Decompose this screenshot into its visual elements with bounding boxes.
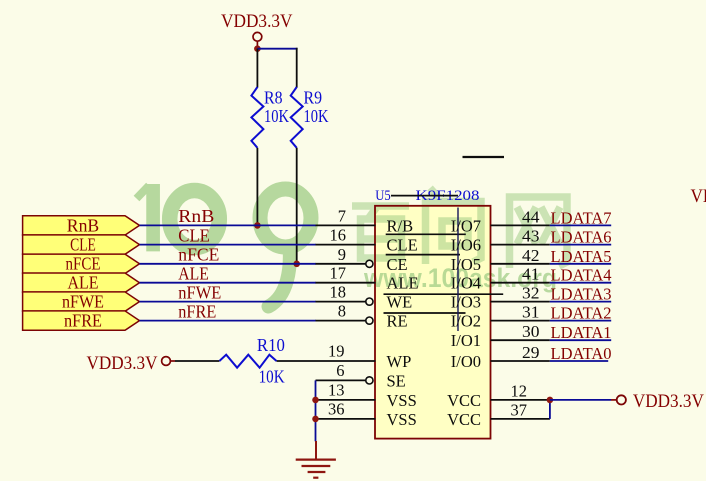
svg-text:WE: WE [387,293,413,312]
svg-text:LDATA6: LDATA6 [551,228,612,247]
wire net LDATA5 [550,263,611,265]
pin 8 stub [316,320,366,322]
watermark [137,184,312,307]
svg-text:36: 36 [328,399,345,418]
pin 6 bubble [366,377,373,384]
pin 37 stub [491,418,550,420]
svg-text:VCC: VCC [447,391,481,410]
wire net LDATA6 [550,244,611,246]
pin 31 stub [491,320,550,322]
pin 36 wire [316,418,376,420]
pin 6 wire [316,379,366,381]
pin 8 bubble [366,317,373,324]
svg-text:RnB: RnB [178,206,214,226]
pin 44 stub [491,224,550,226]
svg-text:8: 8 [338,302,346,321]
pin 18 stub [316,301,366,303]
svg-text:nFRE: nFRE [178,301,216,321]
wire net LDATA3 [550,301,611,303]
svg-text:VSS: VSS [387,410,417,429]
power port VDD3.3V top [221,11,293,46]
svg-text:10K: 10K [259,367,285,387]
svg-text:CE: CE [387,255,408,274]
svg-text:R9: R9 [304,87,323,107]
wire SE/VSS to ground [315,380,317,441]
wire VCC to VDD [550,399,611,401]
port flag ALE [23,273,140,293]
pin 19 wire from R10 [277,360,376,362]
svg-text:VDD3.3V: VDD3.3V [691,186,706,207]
pin 29 stub [491,360,550,362]
overbar RE [384,312,466,314]
pin 43 stub [491,244,550,246]
svg-text:19: 19 [328,342,345,361]
svg-text:nFWE: nFWE [178,282,221,302]
wire R8 to RnB net [256,148,258,226]
svg-text:LDATA4: LDATA4 [551,266,612,285]
power port VDD3.3V right [611,391,704,412]
IC U5 border [375,206,491,439]
overbar CLE [386,233,466,235]
pin 30 stub [491,339,550,341]
pin 9 bubble [366,260,373,267]
svg-text:43: 43 [522,227,540,246]
svg-text:LDATA2: LDATA2 [551,304,612,323]
pin 9 stub [316,263,366,265]
junction dot VCC [547,397,554,404]
wire net LDATA4 [550,282,611,284]
junction dot R8/RnB [254,222,261,229]
IC U5 body fill [375,206,491,439]
svg-text:10K: 10K [264,106,289,126]
svg-text:I/O0: I/O0 [451,352,481,371]
svg-text:R10: R10 [257,335,285,355]
svg-text:ALE: ALE [68,273,99,293]
svg-text:ALE: ALE [387,274,419,293]
svg-text:CLE: CLE [387,236,418,255]
svg-text:SE: SE [387,371,406,390]
svg-text:13: 13 [328,380,345,399]
svg-text:9: 9 [338,245,346,264]
wire net nFWE [140,301,317,303]
resistor R9 [291,87,329,148]
pin 18 bubble [366,298,373,305]
svg-text:LDATA0: LDATA0 [551,344,612,363]
pin 16 stub [316,244,376,246]
pin 41 stub [491,282,550,284]
wire VDD to R10 [175,360,219,362]
svg-text:29: 29 [522,343,540,362]
svg-text:I/O7: I/O7 [451,216,481,235]
wire down to R8 [256,49,258,88]
svg-text:VCC: VCC [447,410,481,429]
svg-text:12: 12 [511,381,528,400]
overbar WE [384,293,504,295]
pin 17 stub [316,282,376,284]
svg-text:16: 16 [330,226,347,245]
svg-text:I/O6: I/O6 [451,236,481,255]
svg-text:I/O2: I/O2 [451,312,481,331]
svg-text:LDATA5: LDATA5 [551,247,612,266]
svg-text:10K: 10K [304,106,329,126]
svg-text:RnB: RnB [67,215,99,235]
svg-text:I/O5: I/O5 [451,255,481,274]
svg-text:I/O4: I/O4 [451,274,481,293]
svg-text:VSS: VSS [387,391,417,410]
svg-text:I/O3: I/O3 [451,293,481,312]
pin 12 stub [491,399,550,401]
svg-text:LDATA3: LDATA3 [551,285,612,304]
pin 32 stub [491,301,550,303]
svg-text:LDATA1: LDATA1 [551,323,612,342]
wire net LDATA2 [550,320,611,322]
svg-text:WP: WP [387,352,412,371]
svg-text:ALE: ALE [178,264,209,284]
svg-text:44: 44 [522,207,540,226]
svg-text:32: 32 [522,284,540,303]
svg-text:R/B: R/B [387,216,414,235]
bus stub line inside IC [457,208,459,332]
resistor R8 [251,87,289,148]
svg-text:LDATA7: LDATA7 [551,208,612,227]
svg-text:18: 18 [330,283,347,302]
pin 13 wire [316,399,376,401]
wire net RnB [140,224,317,226]
svg-text:17: 17 [330,264,347,283]
port flag nFWE [23,292,140,312]
svg-text:I/O1: I/O1 [451,331,481,350]
svg-text:nFRE: nFRE [64,311,102,331]
stray line top [463,156,505,158]
wire VDD to R9 branch [257,48,297,50]
wire net nFCE [140,263,317,265]
resistor R10 [219,335,285,387]
port flag nFRE [23,311,140,331]
wire down to R9 [296,48,298,88]
svg-text:37: 37 [511,400,528,419]
svg-text:U5: U5 [375,188,391,204]
pin 42 stub [491,263,550,265]
ground [296,441,336,478]
svg-text:6: 6 [336,361,344,380]
junction dot R9/nFCE [293,261,300,268]
svg-text:31: 31 [522,303,540,322]
line through value [391,195,458,197]
svg-text:nFCE: nFCE [66,254,101,274]
svg-text:VDD3.3V: VDD3.3V [633,391,704,412]
wire net CLE [140,244,317,246]
pin 7 stub [316,224,376,226]
svg-text:nFCE: nFCE [178,245,219,265]
svg-text:CLE: CLE [70,235,96,255]
svg-text:41: 41 [522,265,540,284]
svg-text:CLE: CLE [178,225,210,245]
junction dot pin13 [312,397,319,404]
svg-text:R8: R8 [264,87,283,107]
svg-text:RE: RE [387,312,408,331]
port flag nFCE [23,254,140,274]
power port VDD3.3V left [87,353,176,374]
port flag RnB [23,215,140,235]
svg-text:42: 42 [522,246,540,265]
overbar CE [386,254,460,256]
wire net LDATA1 [550,339,611,341]
svg-text:30: 30 [522,322,540,341]
wire net nFRE [140,320,317,322]
wire net LDATA7 [550,224,611,226]
junction dot pin36 [312,416,319,423]
junction dot VDD node [254,45,261,52]
wire net ALE [140,282,317,284]
svg-text:VDD3.3V: VDD3.3V [221,11,293,32]
port flag CLE [23,235,140,255]
wire VCC vertical [549,400,551,419]
svg-text:nFWE: nFWE [62,292,104,312]
svg-text:VDD3.3V: VDD3.3V [87,353,158,374]
wire net LDATA0 [550,360,608,362]
wire R9 to nFCE net [296,148,298,264]
svg-text:7: 7 [338,206,346,225]
